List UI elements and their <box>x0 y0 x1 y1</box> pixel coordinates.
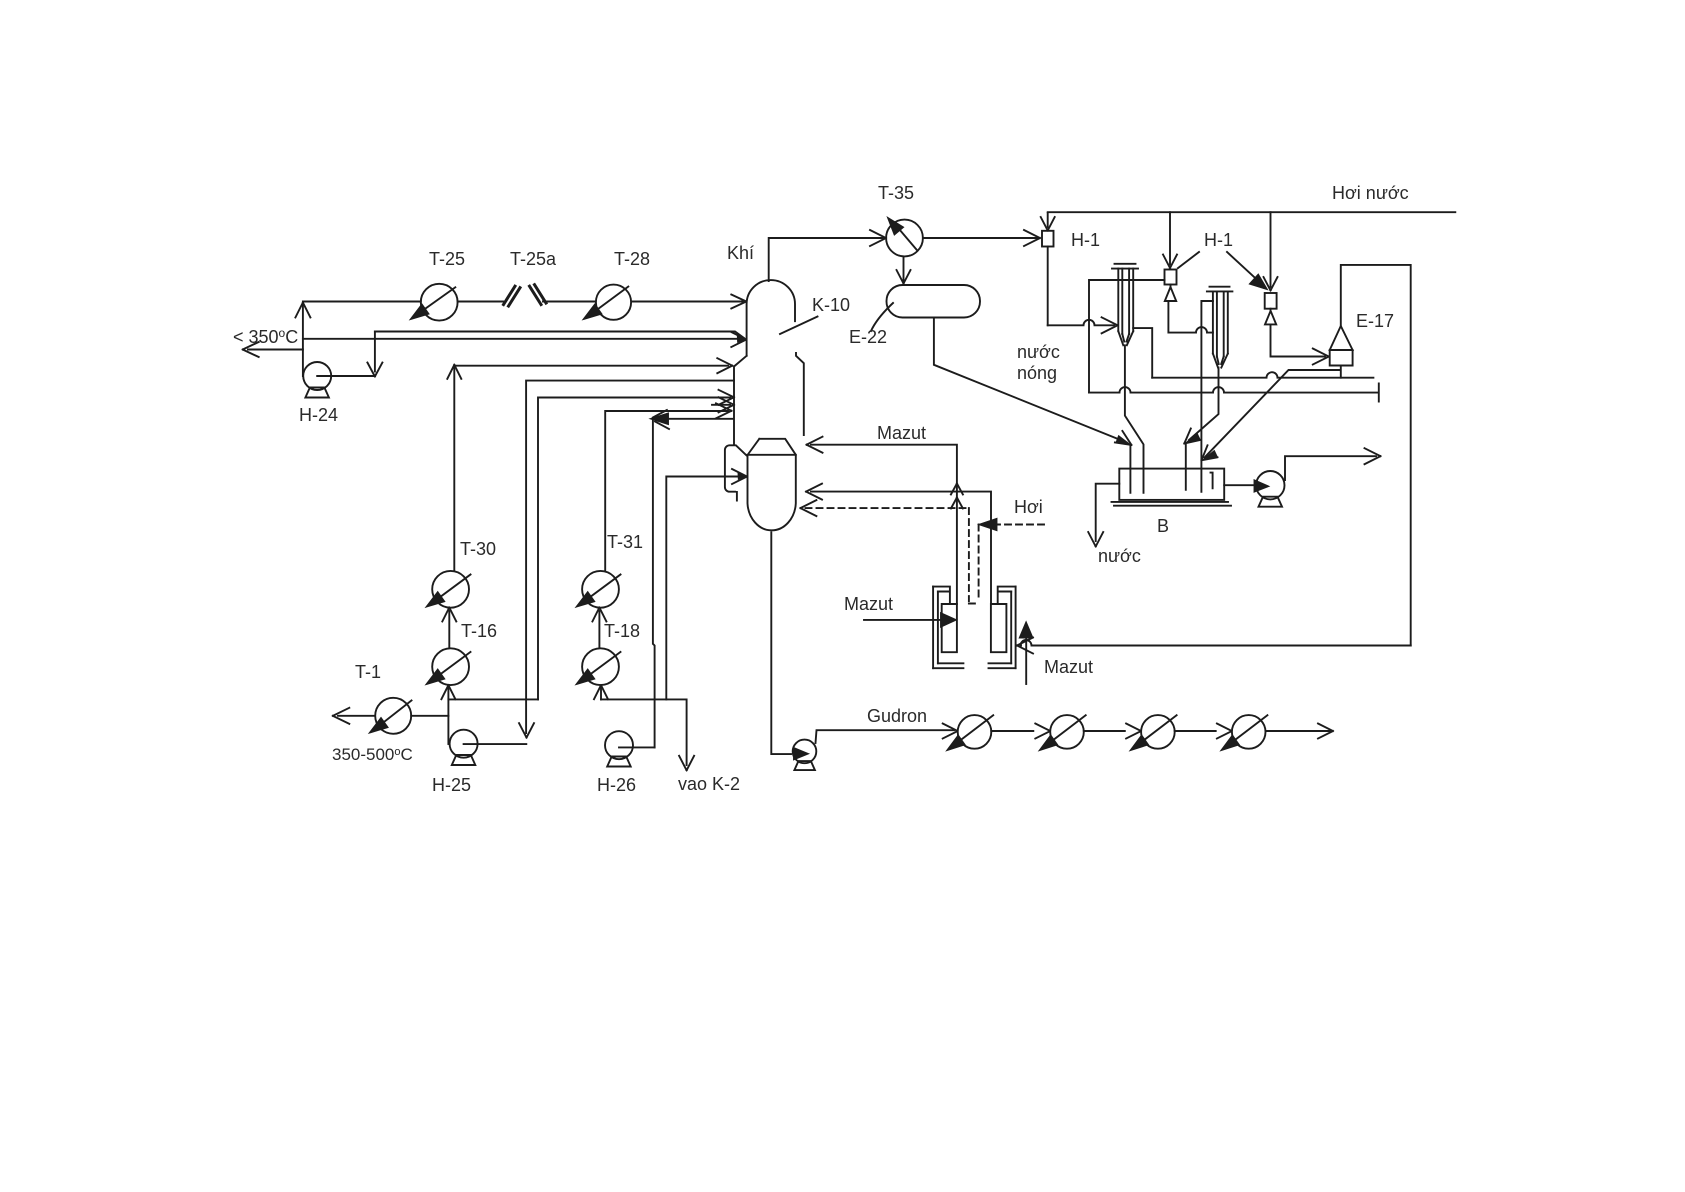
pump H-26 <box>605 731 633 759</box>
svg-text:Hơi: Hơi <box>1014 497 1043 517</box>
node: up chevron on mazut riser at y492 <box>951 484 963 495</box>
node: chevron into vessel y444 <box>807 437 823 453</box>
drum B <box>1119 469 1224 500</box>
svg-text:nóng: nóng <box>1017 363 1057 383</box>
svg-text:nước: nước <box>1098 546 1141 566</box>
node: chevron into E-22 <box>897 270 911 284</box>
line B: header with end bar <box>1089 384 1379 402</box>
condenser E-17 <box>1330 326 1353 366</box>
node: chevron into E-17 <box>1313 349 1329 365</box>
wire: E-22 drain diagonal to drum B <box>934 318 1127 443</box>
node: arrow into drum pipe 1 <box>1115 431 1132 445</box>
node: arrow on ejector2 drain <box>1184 429 1200 444</box>
valve H-1 no1 <box>1047 213 1049 227</box>
wire: water outlet from drum B <box>1096 484 1120 541</box>
wire: ejector2 overflow pipe into drum B <box>1201 301 1213 492</box>
svg-text:vao K-2: vao K-2 <box>678 774 740 794</box>
heat exchanger T-1 <box>375 698 411 734</box>
wire: T-35 down to E-22 <box>903 257 905 283</box>
node: chevron before valve H-1 <box>1024 230 1040 246</box>
svg-text:B: B <box>1157 516 1169 536</box>
svg-text:Khí: Khí <box>727 243 754 263</box>
node: up chevron on mazut riser at y507 <box>951 498 963 509</box>
svg-text:T-16: T-16 <box>461 621 497 641</box>
svg-text:H-24: H-24 <box>299 405 338 425</box>
node: solid arrow into left tube <box>941 613 956 626</box>
svg-text:H-26: H-26 <box>597 775 636 795</box>
heat exchanger gudron 2 <box>1050 715 1084 749</box>
wire: feed y411 from bus x605 <box>605 411 728 571</box>
wire: long line from right loop to furnace <box>1021 640 1411 646</box>
furnace left tube <box>942 604 957 652</box>
svg-text:K-10: K-10 <box>812 295 850 315</box>
wire: riser into T-16 bottom <box>447 688 449 744</box>
wire: overhead vapour riser to T-35 <box>769 238 883 281</box>
wire: steam header <box>1048 211 1456 213</box>
node: solid arrow at corner y419 <box>652 414 669 425</box>
node: arrow into column feed y339 <box>731 332 746 347</box>
svg-text:< 350oC: < 350oC <box>233 326 298 347</box>
svg-text:T-28: T-28 <box>614 249 650 269</box>
svg-text:H-25: H-25 <box>432 775 471 795</box>
node: down chevron above H-25 discharge <box>519 723 534 738</box>
wire: feed y397 from bus x538 <box>538 398 731 700</box>
node: chevron into column y397 <box>719 390 735 405</box>
node: chevron before gudron exchanger 4 <box>1217 724 1232 739</box>
svg-text:Mazut: Mazut <box>1044 657 1093 677</box>
heat exchanger gudron 4 <box>1232 715 1266 749</box>
wire: cross header y699 left train <box>448 698 538 700</box>
heat exchanger T-25 <box>421 284 458 321</box>
svg-text:T-18: T-18 <box>604 621 640 641</box>
node: chevron into column at y365 <box>717 358 732 373</box>
svg-text:T-1: T-1 <box>355 662 381 682</box>
node: down chevron nuoc <box>1088 532 1103 547</box>
node: chevron into T-35 <box>870 230 886 246</box>
wire: riser into T-18 bottom <box>600 688 602 699</box>
wire: T-16 to T-30 <box>448 611 450 648</box>
wire: ejector1 drain into drum B <box>1125 345 1144 493</box>
wire: riser from pump junction <box>302 303 304 376</box>
node: solid arrow on Hoi line <box>980 519 997 530</box>
wire: overhead line from H-24 riser to column K-10 top feed <box>303 301 743 303</box>
node: chevron arrow into column top feed <box>731 295 746 309</box>
heat exchanger T-16 <box>432 648 469 685</box>
line A: condensate header <box>1152 372 1373 378</box>
wire: feed pair into column at y331/339 <box>303 332 744 339</box>
bottom vessel of K-10 <box>748 439 796 531</box>
node: chevron into vessel y508 <box>800 500 816 516</box>
label E-22 with leader <box>871 303 893 331</box>
wire: draw-off y381 to bus x526 <box>526 381 734 733</box>
wire: valve3 outlet to E-17 <box>1271 324 1326 356</box>
wire: return line from column y331 dropping to pump discharge <box>374 332 376 372</box>
heat exchanger gudron 3 <box>1141 715 1175 749</box>
wire: ejector1 outlet to line A <box>1133 328 1152 378</box>
wire: ejector2 drain into drum B <box>1189 368 1219 440</box>
wire: vessel right nozzle to furnace right tube <box>811 492 991 604</box>
furnace shell double wall <box>933 587 938 669</box>
label K-10 with leader <box>780 317 818 335</box>
wire: dashed steam supply Hoi <box>969 525 1049 604</box>
furnace right tube <box>991 604 1007 652</box>
svg-text:nước: nước <box>1017 342 1060 362</box>
wire: bottoms outlet to gudron pump <box>771 532 791 754</box>
node: chevron into column y405 with stub <box>712 397 734 412</box>
wire: E-17 vent riser and right loop <box>1341 265 1411 646</box>
wire: mazut feed from below right of furnace <box>1025 637 1027 684</box>
wire: mazut return line into vessel top right <box>811 445 957 604</box>
heat exchanger T-35 <box>886 220 923 257</box>
break symbol T-25a <box>504 286 521 306</box>
heat exchanger T-30 <box>432 571 469 608</box>
wire: dashed steam line into vessel <box>806 508 969 601</box>
svg-text:T-25a: T-25a <box>510 249 557 269</box>
node: chevron before gudron exchanger 1 <box>943 724 958 739</box>
wire: T-35 outlet to H-1 valve <box>923 237 1037 239</box>
svg-text:H-1: H-1 <box>1071 230 1100 250</box>
valve H-1 no3 <box>1270 212 1272 287</box>
svg-text:Mazut: Mazut <box>844 594 893 614</box>
node: arrow into drum pipe 4 <box>1202 445 1218 460</box>
svg-text:T-31: T-31 <box>607 532 643 552</box>
svg-text:E-17: E-17 <box>1356 311 1394 331</box>
pump at drum B <box>1224 484 1256 486</box>
heat exchanger T-18 <box>582 648 619 685</box>
ejector 2 (barometric condenser) <box>1207 287 1233 292</box>
node: chevron outlet right <box>1365 448 1381 464</box>
node: solid up arrow mazut <box>1020 623 1032 638</box>
pump H-24 <box>303 362 331 390</box>
node: down chevron vao K-2 <box>679 756 694 771</box>
node: chevron at gudron line end <box>1318 724 1333 739</box>
wire: T-30 outlet up to column feed y365 <box>454 366 728 571</box>
node: chevron into ejector 1 <box>1102 317 1118 333</box>
drum internal pipes <box>1130 446 1212 493</box>
svg-text:T-30: T-30 <box>460 539 496 559</box>
wire: mazut feed into furnace left <box>864 619 941 621</box>
wire: T-18 to T-31 <box>598 611 600 648</box>
node: chevron into furnace right <box>1017 638 1033 654</box>
pump H-25 <box>450 730 478 758</box>
node: chevron into column y411 <box>716 403 732 418</box>
svg-text:T-35: T-35 <box>878 183 914 203</box>
svg-text:350-500oC: 350-500oC <box>332 745 413 764</box>
pump: gudron pump <box>793 740 817 764</box>
heat exchanger gudron 1 <box>958 715 992 749</box>
wire: valve2 line to box and ejector2 <box>1089 280 1165 393</box>
wire: T-1 outlet to left <box>338 715 448 717</box>
wire: product line to left with arrow <box>248 349 303 351</box>
wire: feed to bottom vessel y476 from bus x666 <box>666 477 742 700</box>
side box on bottom vessel <box>725 445 747 500</box>
vessel E-22 <box>887 285 981 318</box>
ejector 1 (barometric condenser) <box>1112 264 1138 269</box>
wire: cross header y699 right train to vao K-2 <box>601 699 687 765</box>
node: arrow into vessel y476 <box>732 469 747 484</box>
wire: valve1 to ejector 1 with hop <box>1048 320 1114 326</box>
column K-10 shell <box>734 280 804 444</box>
heat exchanger T-28 <box>596 285 631 320</box>
svg-text:E-22: E-22 <box>849 327 887 347</box>
svg-text:Mazut: Mazut <box>877 423 926 443</box>
heat exchanger T-31 <box>582 571 619 608</box>
svg-text:T-25: T-25 <box>429 249 465 269</box>
node: chevron before gudron exchanger 2 <box>1035 724 1050 739</box>
node: chevron into vessel y492 <box>806 484 822 500</box>
node: chevron before gudron exchanger 3 <box>1126 724 1141 739</box>
svg-text:Hơi nước: Hơi nước <box>1332 183 1409 203</box>
svg-text:Gudron: Gudron <box>867 706 927 726</box>
node: up arrow on riser <box>295 303 310 318</box>
svg-text:H-1: H-1 <box>1204 230 1233 250</box>
wire: E-17 drain to drum B <box>1205 366 1341 458</box>
valve H-1 no2 <box>1169 212 1171 264</box>
wire: drum pump outlet <box>1285 456 1376 480</box>
wire: draw-off y419 to bus x653 <box>653 419 734 748</box>
